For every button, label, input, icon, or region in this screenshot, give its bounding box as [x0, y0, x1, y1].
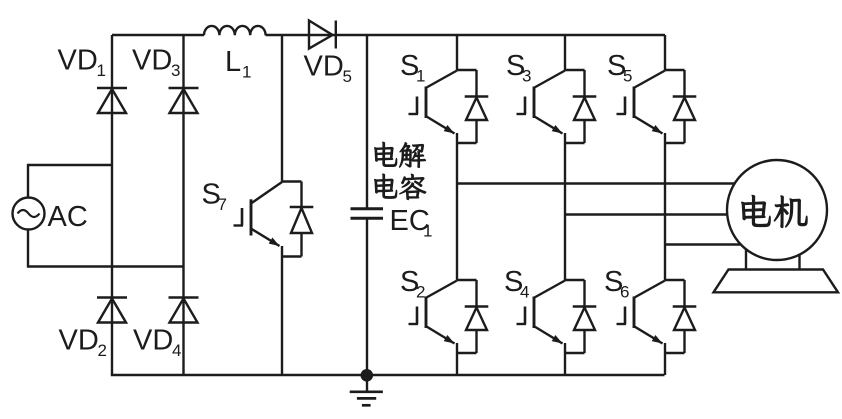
- diode VD5: [309, 21, 336, 49]
- label VD1: [58, 45, 106, 81]
- label VD3: [132, 45, 180, 81]
- label dianrong (capacitor): [374, 174, 426, 200]
- wire leg3 lower column: [664, 343, 666, 375]
- AC source V1: [13, 198, 45, 230]
- IGBT S5 with antiparallel diode: [617, 70, 697, 143]
- IGBT S1 with antiparallel diode: [409, 70, 489, 143]
- svg-text:1: 1: [97, 61, 106, 80]
- label S7: [202, 179, 227, 215]
- wire bottom DC bus (negative rail): [111, 374, 665, 376]
- wire leg3 upper column: [664, 35, 666, 70]
- label dianjie (electrolytic): [374, 142, 425, 168]
- diode VD3: [169, 88, 199, 113]
- wire phase W to motor: [665, 243, 740, 245]
- label VD4: [133, 325, 181, 361]
- wire AC top lead: [28, 164, 112, 198]
- wire leg1 lower column: [456, 343, 458, 375]
- svg-text:1: 1: [242, 63, 251, 82]
- wire leg2 upper column: [564, 35, 566, 70]
- label S6: [604, 266, 629, 302]
- motor M (dianji): [714, 160, 839, 292]
- svg-text:AC: AC: [48, 201, 88, 233]
- wire bridge left column: [111, 35, 113, 375]
- node ground junction: [361, 369, 374, 382]
- label S5: [607, 50, 632, 86]
- label S2: [400, 266, 425, 302]
- wire phase U to motor: [457, 182, 736, 184]
- wire leg2 lower column: [564, 343, 566, 375]
- svg-text:4: 4: [520, 283, 529, 302]
- diode VD4: [169, 298, 199, 323]
- svg-text:7: 7: [218, 195, 227, 214]
- diode VD2: [97, 298, 127, 323]
- svg-text:2: 2: [416, 283, 425, 302]
- svg-text:4: 4: [172, 341, 181, 360]
- svg-text:2: 2: [98, 341, 107, 360]
- wire AC bottom lead: [28, 230, 184, 268]
- svg-text:1: 1: [416, 67, 425, 86]
- svg-text:3: 3: [171, 61, 180, 80]
- wire leg2 mid column: [564, 133, 566, 280]
- wire S7 collector column: [281, 35, 283, 182]
- wire leg1 upper column: [456, 35, 458, 70]
- label S4: [504, 266, 529, 302]
- electrolytic capacitor EC1: [351, 209, 384, 219]
- wire capacitor bottom lead: [366, 219, 368, 375]
- IGBT S3 with antiparallel diode: [517, 70, 597, 143]
- svg-text:VD: VD: [132, 45, 172, 77]
- label dianji (motor): [741, 195, 807, 228]
- svg-text:6: 6: [620, 283, 629, 302]
- wire bridge right column: [182, 35, 184, 375]
- IGBT S2 with antiparallel diode: [409, 280, 489, 353]
- label VD2: [59, 325, 107, 361]
- svg-text:VD: VD: [133, 325, 173, 357]
- wire S7 emitter column: [281, 246, 283, 375]
- svg-text:1: 1: [423, 222, 432, 241]
- svg-text:3: 3: [522, 67, 531, 86]
- svg-text:L: L: [225, 46, 241, 78]
- label L1: [225, 46, 251, 82]
- ground: [350, 375, 383, 405]
- IGBT S6 with antiparallel diode: [617, 280, 697, 353]
- label VD5: [304, 51, 352, 87]
- svg-text:VD: VD: [59, 325, 99, 357]
- wire top DC bus: [112, 34, 665, 36]
- label EC1: [390, 205, 433, 241]
- label S3: [506, 50, 531, 86]
- wire phase V to motor: [565, 213, 729, 215]
- svg-text:VD: VD: [304, 51, 344, 83]
- IGBT S7 with antiparallel diode: [234, 182, 314, 257]
- wire leg3 mid column: [664, 133, 666, 280]
- svg-text:VD: VD: [58, 45, 98, 77]
- label S1: [400, 50, 425, 86]
- wire leg1 mid column: [456, 133, 458, 280]
- svg-text:5: 5: [343, 67, 352, 86]
- IGBT S4 with antiparallel diode: [517, 280, 597, 353]
- inductor L1: [204, 26, 266, 35]
- svg-text:5: 5: [623, 67, 632, 86]
- diode VD1: [97, 88, 127, 113]
- wire capacitor top lead: [366, 35, 368, 208]
- label AC: [48, 201, 88, 233]
